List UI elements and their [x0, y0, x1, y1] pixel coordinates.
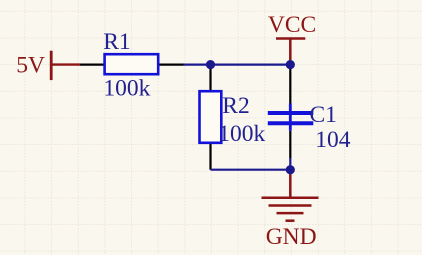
resistor R2 pin 1: [209, 65, 211, 92]
svg-text:GND: GND: [266, 224, 317, 250]
resistor R1 pin 1: [80, 63, 105, 65]
wire stub to node C: [289, 158, 291, 170]
wire bottom rail to ground: [211, 169, 291, 171]
wire net VCC top rail: [184, 63, 291, 65]
svg-text:C1: C1: [310, 102, 337, 128]
svg-text:VCC: VCC: [268, 12, 316, 38]
resistor R2 body: [200, 91, 222, 143]
port 5V: [51, 51, 80, 80]
resistor R2 pin 2: [209, 143, 211, 170]
capacitor C1 pin 1: [289, 65, 291, 104]
svg-text:100k: 100k: [103, 75, 150, 101]
junction node C: [286, 165, 295, 174]
capacitor C1 body: [268, 104, 314, 131]
svg-text:104: 104: [315, 127, 351, 153]
junction node A: [206, 60, 215, 69]
svg-text:100k: 100k: [218, 121, 265, 147]
resistor R1 body: [105, 54, 159, 74]
svg-text:R2: R2: [222, 93, 249, 119]
svg-text:5V: 5V: [16, 53, 45, 79]
junction node B: [286, 60, 295, 69]
ground GND symbol: [262, 170, 319, 221]
capacitor C1 pin 2: [289, 131, 291, 158]
svg-text:R1: R1: [103, 29, 130, 55]
power VCC symbol: [276, 39, 305, 65]
resistor R1 pin 2: [158, 63, 183, 65]
